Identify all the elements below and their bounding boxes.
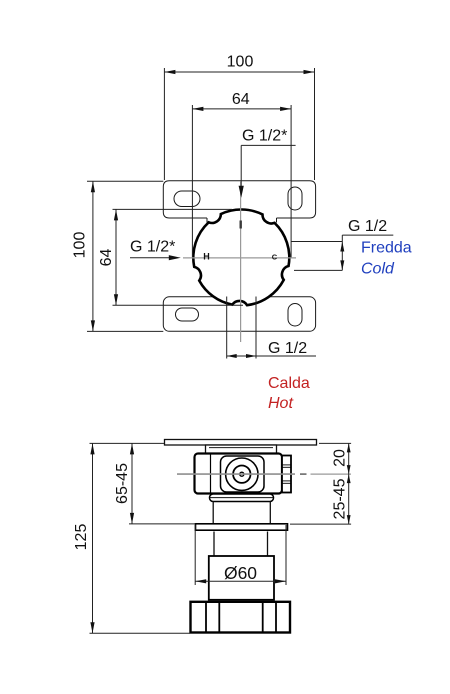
- right threaded connector: [282, 456, 291, 493]
- dimension 20 label: [332, 449, 349, 467]
- dimension 100 horizontal line: [164, 68, 314, 180]
- svg-text:Calda: Calda: [268, 375, 310, 392]
- dimension 65-45 label: [114, 463, 131, 504]
- extension line 64 left vertical: [191, 105, 193, 258]
- dimension 64 vertical label: [98, 249, 115, 267]
- dimension 25-45 label: [332, 478, 349, 519]
- neck stub left: [206, 218, 208, 223]
- svg-text:100: 100: [72, 232, 89, 259]
- vertical centerline top view: [240, 181, 242, 342]
- svg-text:G 1/2: G 1/2: [268, 340, 307, 357]
- sleeve block D60: [209, 556, 274, 600]
- marker H hot side: [203, 251, 210, 261]
- valve body lobed circle: [193, 210, 289, 306]
- leader lines G 1/2 right port: [291, 235, 393, 270]
- svg-text:H: H: [203, 251, 210, 261]
- horizontal centerline side view: [177, 473, 351, 475]
- leader arrow G 1/2 star left: [130, 255, 181, 260]
- svg-text:100: 100: [227, 54, 254, 71]
- label G 1/2 star top: [242, 128, 287, 145]
- side view main valve body: [195, 454, 283, 494]
- svg-text:Cold: Cold: [361, 260, 395, 277]
- lower flange right slot: [288, 304, 302, 327]
- horizontal centerline top view: [183, 257, 296, 259]
- collar ring below body: [210, 494, 274, 502]
- label D60: [224, 563, 257, 583]
- svg-text:Ø60: Ø60: [224, 563, 257, 583]
- upper flange right slot: [288, 187, 302, 210]
- label G 1/2 star left: [130, 239, 175, 256]
- dimension 64 horizontal line: [192, 107, 291, 111]
- cartridge inner circle: [233, 466, 250, 483]
- dimension 65-45 line: [129, 443, 196, 524]
- dimension 20 line: [319, 443, 351, 474]
- dimension 100 vertical line: [87, 181, 163, 331]
- svg-text:G 1/2*: G 1/2*: [130, 239, 175, 256]
- label G 1/2 right: [348, 218, 387, 235]
- svg-text:Hot: Hot: [268, 395, 293, 412]
- lower flange left slot: [176, 308, 199, 321]
- extension lines bottom port: [227, 297, 256, 359]
- svg-text:G 1/2: G 1/2: [348, 218, 387, 235]
- svg-text:C: C: [272, 253, 278, 262]
- svg-text:Fredda: Fredda: [361, 240, 412, 257]
- lower cylinder sides: [214, 532, 268, 557]
- top mounting plate upper flange: [163, 181, 315, 218]
- neck stub right: [276, 218, 278, 223]
- label Calda: [268, 375, 310, 392]
- leader line G 1/2 star top: [239, 145, 296, 197]
- cartridge center dot: [240, 472, 244, 476]
- dimension 64 horizontal label: [232, 91, 250, 108]
- label Hot: [268, 395, 293, 412]
- body internal left line: [210, 454, 212, 493]
- extension line 64 right vertical: [290, 105, 292, 258]
- top mounting plate lower flange: [163, 297, 315, 332]
- svg-text:125: 125: [73, 524, 90, 551]
- label Fredda: [361, 240, 412, 257]
- body central boss: [221, 456, 265, 492]
- dimension D60 line: [195, 525, 286, 585]
- svg-text:20: 20: [332, 449, 349, 467]
- dimension 100 vertical label: [72, 232, 89, 259]
- cartridge outer circle: [226, 458, 258, 490]
- hex nut: [191, 602, 291, 633]
- svg-text:64: 64: [232, 91, 250, 108]
- dimension line bottom port: [227, 354, 316, 358]
- label G 1/2 bottom: [268, 340, 307, 357]
- escutcheon flange: [196, 524, 288, 530]
- side view wall plate: [165, 440, 317, 446]
- marker C cold side: [272, 253, 278, 262]
- dimension 125 label: [73, 524, 90, 551]
- dimension 25-45 line: [290, 474, 351, 524]
- upper cylinder sides: [213, 502, 270, 525]
- svg-text:G 1/2*: G 1/2*: [242, 128, 287, 145]
- side view collar under plate: [206, 445, 277, 454]
- label Cold: [361, 260, 395, 277]
- svg-text:65-45: 65-45: [114, 463, 131, 504]
- svg-text:25-45: 25-45: [332, 478, 349, 519]
- dimension 64 vertical line: [113, 209, 244, 305]
- upper flange left slot: [174, 191, 200, 207]
- dimension 100 horizontal label: [227, 54, 254, 71]
- dimension 125 line: [90, 443, 191, 633]
- svg-text:64: 64: [98, 249, 115, 267]
- alignment tick: [240, 221, 242, 229]
